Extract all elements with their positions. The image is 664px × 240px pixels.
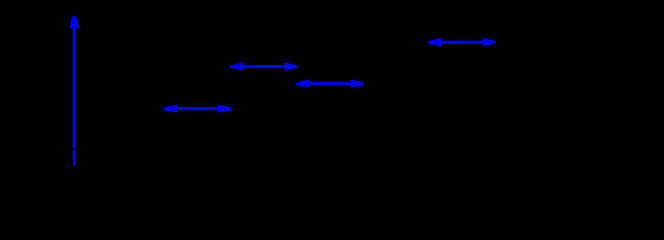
horizontal interval arrow 2 [230, 62, 298, 70]
horizontal interval arrow 1 [428, 38, 497, 46]
horizontal interval arrow 4 [164, 104, 231, 112]
horizontal interval arrow 3 [296, 79, 364, 87]
vertical axis double arrow [69, 16, 79, 166]
